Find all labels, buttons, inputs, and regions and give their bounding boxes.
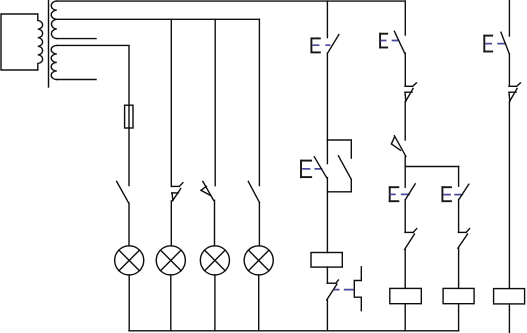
fuse F1 xyxy=(125,105,133,128)
pushbutton E label col3 xyxy=(442,186,452,202)
switch E col2 top blade xyxy=(394,31,404,53)
transformer T1 primary loop xyxy=(1,14,38,70)
wire column4 seg3 xyxy=(508,101,510,288)
wire column2 to coil xyxy=(404,249,406,288)
contact K1 aux blade xyxy=(338,156,351,179)
contact B4 xyxy=(509,83,520,102)
lamp H4 xyxy=(244,246,273,275)
wire through fuse xyxy=(128,105,130,128)
wire branch3 switch to lamp xyxy=(214,200,216,246)
contact D3 xyxy=(458,229,470,249)
wire parallel branch lower xyxy=(350,180,352,192)
latch mechanism xyxy=(354,267,361,311)
transformer T1 primary winding xyxy=(38,14,43,70)
switch E col2 blade xyxy=(405,184,415,200)
wire column1 mid xyxy=(326,53,328,140)
coil K2 xyxy=(390,288,422,303)
wire branch4 lamp to bus xyxy=(258,275,260,331)
wire bottom bus N xyxy=(129,330,459,332)
wire split bottom xyxy=(327,191,351,193)
wire branch3 top xyxy=(214,19,216,186)
wire split top xyxy=(327,139,351,141)
wire column1 to bus xyxy=(326,300,328,331)
switch E col3 blade xyxy=(459,184,469,199)
wire column3 top xyxy=(458,167,460,187)
transformer T1 secondary winding upper xyxy=(51,1,57,39)
linkage dashes E col2 xyxy=(390,193,410,195)
wire column3 to bus xyxy=(458,304,460,331)
wire branch3 lamp to bus xyxy=(214,275,216,331)
switch S1 blade xyxy=(117,181,129,203)
wire tap to lamp branch 1 xyxy=(57,45,129,105)
linkage dashes latch xyxy=(334,289,353,291)
pushbutton E label col2 top xyxy=(379,33,388,49)
switch S4 blade xyxy=(248,181,259,202)
wire column1 through split xyxy=(326,140,328,164)
lamp H2 xyxy=(156,246,185,275)
wire branch1 fuse to switch xyxy=(128,128,130,186)
switch E mid blade xyxy=(314,157,326,178)
wire junction to column3 xyxy=(405,166,458,168)
contact S2 xyxy=(172,183,183,201)
contact C2 xyxy=(391,136,406,157)
pushbutton E7 label E xyxy=(311,38,321,54)
coil K1 xyxy=(311,253,342,268)
wire branch4 top xyxy=(258,19,260,185)
wire column2 seg2 xyxy=(404,101,406,140)
switch E7 blade xyxy=(328,35,339,54)
wire parallel branch upper xyxy=(350,140,352,158)
contact S3 xyxy=(201,181,214,200)
linkage dashes E col3 xyxy=(443,194,463,196)
wire column1 to coil xyxy=(326,178,328,253)
wire branch1 switch to lamp xyxy=(128,203,130,246)
wire branch4 switch to lamp xyxy=(258,203,260,246)
linkage dashes E mid xyxy=(302,168,322,170)
wire top bus L1 xyxy=(56,0,405,2)
pushbutton E7 label col4 xyxy=(483,35,493,53)
wire second bus xyxy=(57,18,260,20)
linkage dashes E col2 top xyxy=(381,40,400,42)
switch E7 col4 blade xyxy=(501,32,510,54)
wire branch2 top xyxy=(170,19,172,186)
linkage dashes E7 col4 xyxy=(485,43,506,45)
NC contact K1 xyxy=(327,280,339,300)
wire column2 seg4 xyxy=(404,200,406,233)
wire column2 top xyxy=(404,1,406,35)
wire column2 upper seg xyxy=(404,53,406,86)
wire column4 top xyxy=(508,0,510,36)
lamp H1 xyxy=(115,246,144,275)
pushbutton E label col2 xyxy=(389,186,400,202)
wire coil to NC contact xyxy=(326,267,328,283)
wire column3 seg2 xyxy=(458,199,460,232)
lamp H3 xyxy=(200,246,229,275)
contact B2 xyxy=(405,83,416,102)
transformer T1 secondary winding lower xyxy=(51,45,57,79)
wire branch2 switch to lamp xyxy=(170,201,172,246)
wire column1 top xyxy=(326,1,328,38)
coil K4 xyxy=(494,289,525,304)
wire tap stub A xyxy=(57,38,96,40)
wire branch2 lamp to bus xyxy=(170,275,172,331)
linkage dashes E7 xyxy=(312,44,330,46)
transformer T1 core xyxy=(48,0,50,87)
wire tap stub B xyxy=(57,79,96,81)
wire column3 to coil xyxy=(458,248,460,288)
wire column4 seg2 xyxy=(508,54,510,86)
wire column4 to bottom edge xyxy=(508,304,510,333)
wire column2 seg3 xyxy=(404,156,406,187)
wire column2 to bus xyxy=(404,304,406,331)
pushbutton E label mid xyxy=(300,160,312,178)
contact D2 xyxy=(405,229,417,250)
coil K3 xyxy=(443,288,474,303)
wire branch1 lamp to bus xyxy=(128,275,130,331)
